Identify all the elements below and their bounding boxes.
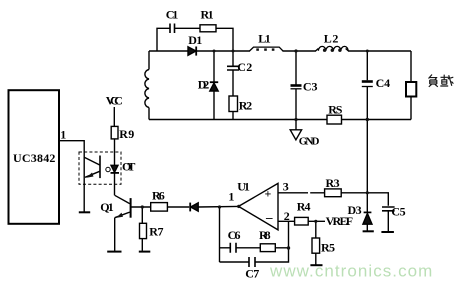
resistor R2 bbox=[229, 96, 238, 112]
wire pin1 bbox=[59, 141, 84, 212]
wire L2 to corner bbox=[348, 50, 411, 52]
svg-text:R4: R4 bbox=[297, 199, 311, 213]
wire C4 branch bbox=[366, 51, 368, 193]
wire VCC to R9 bbox=[113, 107, 115, 126]
resistor RS bbox=[327, 115, 342, 124]
svg-text:VCC: VCC bbox=[106, 93, 123, 107]
svg-text:R3: R3 bbox=[326, 176, 340, 190]
ground R7 bbox=[139, 251, 151, 253]
wire C6 R8 row bbox=[220, 247, 289, 249]
ground C5 bbox=[381, 231, 394, 233]
svg-text:C7: C7 bbox=[245, 267, 259, 281]
svg-text:D3: D3 bbox=[348, 203, 362, 217]
svg-text:GND: GND bbox=[299, 136, 320, 148]
wire pin2 row bbox=[278, 220, 325, 222]
capacitor C6 bbox=[230, 243, 236, 253]
ground opto emitter bbox=[79, 211, 90, 213]
capacitor C1 bbox=[170, 24, 175, 34]
svg-text:R2: R2 bbox=[239, 98, 252, 112]
capacitor C4 bbox=[362, 80, 373, 83]
resistor R5 bbox=[312, 238, 320, 253]
inductor L1 bbox=[250, 47, 284, 51]
svg-text:R9: R9 bbox=[119, 127, 134, 141]
svg-text:C4: C4 bbox=[376, 76, 391, 90]
resistor R8 bbox=[260, 244, 275, 252]
diode D1 bbox=[188, 47, 196, 56]
wire C5 to ground bbox=[387, 211, 389, 232]
svg-text:1: 1 bbox=[228, 190, 234, 204]
svg-text:R6: R6 bbox=[152, 188, 165, 202]
svg-text:L1: L1 bbox=[258, 31, 270, 45]
wire C3 branch bbox=[295, 51, 297, 120]
svg-text:D1: D1 bbox=[188, 33, 202, 47]
resistor R1 bbox=[200, 25, 216, 32]
resistor R9 bbox=[111, 126, 118, 138]
wire right side and load branch bbox=[410, 51, 412, 120]
svg-text:C6: C6 bbox=[228, 228, 241, 242]
wire snubber top bbox=[157, 28, 233, 51]
wire feedback vertical bbox=[219, 207, 221, 262]
resistor R3 bbox=[325, 189, 342, 197]
diode D3 bbox=[364, 211, 372, 213]
UC3842 box U2 bbox=[9, 90, 60, 224]
wire R9 to LED bbox=[114, 139, 116, 165]
svg-text:C1: C1 bbox=[166, 7, 179, 21]
transistor Q1 bbox=[115, 195, 130, 203]
resistor R6 bbox=[151, 203, 168, 212]
optocoupler OT dashed box bbox=[79, 152, 121, 184]
svg-text:C5: C5 bbox=[391, 204, 405, 218]
optocoupler light mark bbox=[106, 167, 110, 171]
svg-text:C2: C2 bbox=[237, 60, 252, 74]
svg-text:C3: C3 bbox=[303, 79, 318, 93]
capacitor C2 bbox=[227, 66, 239, 70]
svg-text:1: 1 bbox=[60, 127, 66, 141]
wire R7 branch bbox=[141, 207, 143, 251]
optocoupler phototransistor bbox=[99, 156, 101, 179]
wire top rail after D1 bbox=[196, 50, 250, 52]
svg-text:www.cntronics.com: www.cntronics.com bbox=[269, 261, 433, 280]
ground D3 bbox=[363, 230, 374, 232]
op-amp U1 bbox=[239, 183, 279, 230]
svg-text:R8: R8 bbox=[259, 228, 271, 242]
capacitor C5 bbox=[382, 207, 395, 211]
node junction dots bbox=[141, 49, 369, 249]
wire D2 branch bbox=[213, 51, 215, 120]
resistor R4 bbox=[295, 217, 309, 225]
wire C7 row bbox=[220, 221, 289, 262]
wire diode to op-amp bbox=[198, 205, 238, 208]
capacitor C7 bbox=[249, 257, 255, 267]
diode D4 bbox=[189, 203, 191, 212]
svg-text:RS: RS bbox=[328, 103, 343, 117]
svg-text:+: + bbox=[265, 187, 272, 201]
inductor L2 bbox=[316, 49, 349, 52]
svg-text:–: – bbox=[265, 210, 273, 225]
wire Q1 emitter to ground bbox=[114, 218, 116, 251]
svg-text:OT: OT bbox=[122, 160, 135, 174]
wire pin3 row bbox=[278, 192, 367, 194]
wire top rail left bbox=[149, 50, 188, 52]
wire R5 branch bbox=[315, 221, 317, 264]
wire R6 to diode D4 bbox=[167, 206, 189, 208]
optocoupler LED bbox=[111, 165, 118, 172]
wire L1 to L2 bbox=[283, 50, 317, 52]
svg-text:R1: R1 bbox=[201, 7, 214, 21]
ground GND under C3 bbox=[295, 120, 297, 130]
wire C2 R2 branch bbox=[232, 51, 234, 120]
transformer winding T1 bbox=[148, 51, 150, 120]
svg-text:Q1: Q1 bbox=[100, 200, 114, 214]
label load (Chinese) bbox=[429, 75, 454, 87]
svg-text:UC3842: UC3842 bbox=[13, 151, 55, 165]
ground Q1 bbox=[107, 251, 121, 253]
svg-text:3: 3 bbox=[283, 180, 289, 194]
resistor R7 bbox=[140, 223, 147, 238]
wire bottom rail bbox=[149, 119, 411, 121]
svg-text:D2: D2 bbox=[198, 77, 210, 91]
wire Q1 base to R6 bbox=[131, 206, 151, 208]
ground R5 bbox=[310, 264, 322, 266]
svg-text:R7: R7 bbox=[149, 225, 163, 239]
svg-text:R5: R5 bbox=[321, 240, 335, 254]
load box bbox=[406, 82, 416, 97]
diode D2 bbox=[210, 83, 218, 91]
capacitor C3 bbox=[291, 84, 302, 87]
svg-text:2: 2 bbox=[284, 209, 290, 223]
svg-text:U1: U1 bbox=[237, 180, 250, 194]
wire node to C5 bbox=[367, 193, 388, 206]
svg-text:L2: L2 bbox=[324, 31, 339, 45]
